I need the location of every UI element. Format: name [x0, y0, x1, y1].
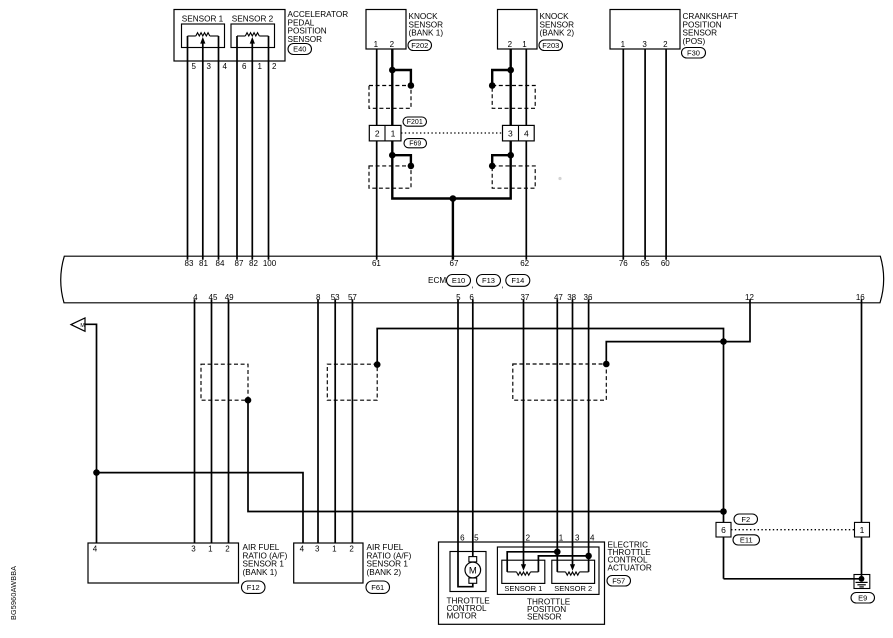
svg-text:87: 87 — [235, 259, 244, 268]
wire shield drain bank1 upper — [392, 70, 411, 86]
oval F14 — [506, 275, 530, 287]
potentiometer APP sensor2 — [237, 35, 245, 37]
wire AF bank1 shield drain — [248, 400, 724, 511]
svg-text:BG5960AWBBA: BG5960AWBBA — [9, 566, 18, 620]
svg-text:84: 84 — [216, 259, 225, 268]
wire ECM 8 to AF bank2 pin3 — [317, 299, 319, 543]
junction shield drain node — [720, 338, 727, 345]
oval F202 — [408, 40, 432, 51]
accelerator pedal position sensor outer box E40 — [174, 10, 285, 62]
oval E9 — [851, 593, 875, 604]
svg-text:F12: F12 — [247, 583, 260, 592]
wire ECM 12 shield feed — [606, 299, 750, 364]
wire APP sensor1 pin4 to ECM 84 — [218, 36, 220, 260]
wire ECM 16 to connector E11/F2 pin1 and ground E9 — [861, 299, 863, 579]
svg-text:F14: F14 — [511, 276, 524, 285]
svg-text:SENSOR: SENSOR — [527, 613, 562, 622]
wire APP sensor2 pin6 to ECM 87 — [236, 36, 238, 260]
throttle control motor box — [450, 552, 486, 592]
svg-text:F202: F202 — [411, 41, 428, 50]
shield dashed box knock bank1 lower — [369, 166, 411, 188]
APP sensor2 inner box — [231, 24, 275, 48]
ground box E9 — [854, 575, 870, 589]
junction bank1 upper shield corner — [408, 82, 415, 89]
svg-text:82: 82 — [249, 259, 258, 268]
crankshaft position sensor box F30 — [610, 10, 680, 50]
wire shield drain bank2 lower — [492, 155, 511, 166]
svg-text:(BANK 2): (BANK 2) — [540, 29, 575, 38]
svg-text:4: 4 — [93, 544, 98, 553]
wire from page arrow — [85, 324, 97, 543]
svg-text:4: 4 — [300, 544, 305, 553]
wire CKP pin2 to ECM 60 — [665, 49, 667, 260]
svg-text:37: 37 — [520, 293, 529, 302]
wire feed to AF bank2 pin4 — [97, 473, 304, 543]
svg-text:49: 49 — [225, 293, 234, 302]
wire ECM 49 to AF bank1 pin2 — [228, 299, 230, 543]
junction drain meets AF drain — [720, 508, 727, 515]
svg-text:83: 83 — [185, 259, 194, 268]
oval E10 — [447, 275, 471, 287]
wire knock sensor bank1 pin1 to ECM 61 — [376, 49, 378, 260]
oval E40 — [288, 44, 312, 55]
svg-text:E9: E9 — [858, 593, 867, 602]
svg-text:1: 1 — [522, 40, 527, 49]
oval F30 — [682, 48, 706, 59]
ground symbol bars — [856, 581, 868, 583]
oval F201 — [403, 117, 427, 126]
svg-text:16: 16 — [856, 293, 865, 302]
shield dashed box knock bank2 lower — [492, 166, 535, 188]
svg-text:2: 2 — [225, 544, 230, 553]
svg-text:45: 45 — [209, 293, 218, 302]
svg-text:F61: F61 — [371, 583, 384, 592]
wire ECM 38 to TPS sensor2 wiper — [572, 299, 574, 564]
connector F201/F69 right cells 3|4 — [503, 125, 535, 140]
junction TPS pin1 — [554, 549, 561, 556]
junction bank2 upper shield corner — [489, 82, 496, 89]
svg-text:(BANK 2): (BANK 2) — [367, 568, 402, 577]
wire TPS supply branch to sensor1 left end — [507, 552, 557, 572]
shield dashed box AF bank2 — [327, 364, 377, 400]
page reference arrow — [71, 318, 85, 331]
motor M symbol — [469, 557, 477, 562]
svg-text:81: 81 — [199, 259, 208, 268]
ECM connector strip — [61, 256, 884, 303]
wire APP sensor1 pin3 wiper to ECM 81 — [202, 43, 204, 260]
svg-text:2: 2 — [526, 533, 531, 542]
potentiometer TPS sensor1 — [507, 571, 516, 573]
svg-text:2: 2 — [349, 544, 354, 553]
svg-text:F57: F57 — [612, 576, 625, 585]
wire shield drain to connector 6 — [723, 342, 725, 579]
svg-text:3: 3 — [207, 62, 212, 71]
junction bank1 lower on wire — [389, 152, 396, 159]
oval F203 — [539, 40, 563, 51]
svg-text:4: 4 — [524, 129, 529, 139]
svg-text:100: 100 — [263, 259, 277, 268]
knock sensor bank1 box F202 — [366, 10, 406, 50]
wire APP sensor1 pin5 to ECM 83 — [187, 36, 189, 260]
junction TPS pin4 — [585, 553, 592, 560]
svg-text:47: 47 — [554, 293, 563, 302]
svg-text:F2: F2 — [741, 515, 750, 524]
dotted connector link 6-1 — [731, 529, 855, 531]
air fuel ratio sensor bank1 box F12 — [88, 543, 239, 583]
stray mark — [558, 177, 561, 180]
svg-text:SENSOR 2: SENSOR 2 — [554, 584, 592, 593]
svg-text:60: 60 — [661, 259, 670, 268]
svg-text:5: 5 — [192, 62, 197, 71]
svg-text:4: 4 — [223, 62, 228, 71]
connector E11/F2 cell 1 — [855, 522, 870, 537]
svg-text:1: 1 — [391, 129, 396, 139]
svg-text:4: 4 — [590, 533, 595, 542]
svg-text:ECM: ECM — [428, 276, 446, 285]
wire drain to ground box — [724, 578, 862, 580]
svg-text:3: 3 — [315, 544, 320, 553]
junction AF bank1 shield corner — [245, 397, 252, 404]
wire ECM 47 to TPS pin1 supply — [556, 299, 558, 572]
svg-text:F203: F203 — [542, 41, 559, 50]
svg-text:SENSOR 1: SENSOR 1 — [504, 584, 542, 593]
wire ECM 6 to throttle motor pin5 — [472, 299, 474, 557]
junction AF bank2 shield corner — [374, 361, 381, 368]
svg-text:6: 6 — [460, 533, 465, 542]
wire ECM 45 to AF bank1 pin1 — [211, 299, 213, 543]
junction bank2 lower on wire — [507, 152, 514, 159]
svg-text:61: 61 — [372, 259, 381, 268]
wire APP sensor2 pin2 to ECM 100 — [268, 36, 270, 260]
wire APP sensor2 pin1 wiper to ECM 82 — [251, 43, 253, 260]
knock sensor bank2 box F203 — [498, 10, 538, 50]
junction bank2 upper on wire — [507, 67, 514, 74]
svg-text:1: 1 — [374, 40, 379, 49]
APP sensor1 inner box — [182, 24, 225, 48]
svg-text:,: , — [502, 281, 504, 290]
svg-text:F69: F69 — [409, 141, 421, 148]
wire TPS ground branch to sensor1 right end — [538, 556, 588, 572]
svg-text:,: , — [472, 281, 474, 290]
wire knock common to ECM 67 — [452, 199, 454, 260]
svg-text:1: 1 — [559, 533, 564, 542]
svg-text:6: 6 — [721, 525, 726, 535]
oval F61 — [366, 581, 390, 593]
svg-text:E11: E11 — [740, 536, 753, 545]
svg-text:1: 1 — [860, 525, 865, 535]
svg-text:(POS): (POS) — [683, 37, 706, 46]
shield dashed box AF bank1 — [201, 364, 248, 400]
svg-text:ACTUATOR: ACTUATOR — [608, 563, 652, 572]
shield dashed box knock bank1 upper — [369, 86, 411, 109]
svg-text:F201: F201 — [407, 119, 423, 126]
wire CKP pin3 to ECM 65 — [644, 49, 646, 260]
svg-text:6: 6 — [242, 62, 247, 71]
junction AF feed split — [93, 469, 100, 476]
junction TPS shield corner — [603, 361, 610, 368]
electric throttle control actuator outer box F57 — [439, 542, 605, 624]
wire ECM 4 to AF bank1 pin3 — [194, 299, 196, 543]
svg-text:3: 3 — [508, 129, 513, 139]
svg-text:3: 3 — [191, 544, 196, 553]
wire shielded knock sensor pin2 loop bank1+bank2 — [392, 49, 510, 199]
junction bank1 lower shield corner — [408, 163, 415, 170]
connector F201/F69 left cells 2|1 — [369, 125, 401, 140]
svg-text:F13: F13 — [482, 276, 495, 285]
svg-text:1: 1 — [258, 62, 263, 71]
connector E11/F2 cell 6 — [716, 522, 731, 537]
TPS sensor2 box — [552, 560, 595, 583]
svg-text:1: 1 — [208, 544, 213, 553]
junction knock common node — [450, 195, 457, 202]
oval F13 — [477, 275, 501, 287]
svg-text:SENSOR 1: SENSOR 1 — [182, 14, 224, 23]
wire ECM 37 to TPS sensor1 wiper — [523, 299, 525, 564]
svg-text:65: 65 — [641, 259, 650, 268]
wire CKP pin1 to ECM 76 — [622, 49, 624, 260]
throttle position sensor outer box — [497, 547, 599, 594]
svg-text:3: 3 — [642, 40, 647, 49]
wire ECM 5 to throttle motor pin6 — [458, 299, 473, 586]
svg-text:76: 76 — [619, 259, 628, 268]
svg-text:3: 3 — [575, 533, 580, 542]
svg-text:F30: F30 — [687, 48, 700, 57]
TPS sensor1 box — [502, 560, 545, 583]
svg-text:62: 62 — [520, 259, 529, 268]
shield dashed box TPS — [513, 364, 607, 400]
svg-text:2: 2 — [508, 40, 513, 49]
svg-text:SENSOR 2: SENSOR 2 — [232, 14, 274, 23]
potentiometer TPS sensor2 — [557, 571, 565, 573]
svg-text:2: 2 — [375, 129, 380, 139]
ground symbol junction dot — [859, 576, 865, 582]
svg-text:1: 1 — [621, 40, 626, 49]
wire ECM 53 to AF bank2 pin1 — [334, 299, 336, 543]
oval F57 — [607, 576, 631, 587]
wire shield drain bank1 lower — [392, 155, 411, 166]
wire ECM 36 to TPS pin4 ground — [588, 299, 590, 572]
oval F2 — [734, 514, 758, 524]
svg-text:E10: E10 — [452, 276, 465, 285]
svg-text:2: 2 — [272, 62, 277, 71]
svg-text:2: 2 — [663, 40, 668, 49]
air fuel ratio sensor bank2 box F61 — [294, 543, 363, 583]
dotted connector link F201-F69 — [401, 132, 503, 134]
svg-text:1: 1 — [332, 544, 337, 553]
wire shield drain bank2 upper — [492, 70, 511, 86]
potentiometer APP sensor1 — [188, 35, 196, 37]
svg-text:SENSOR: SENSOR — [288, 35, 323, 44]
svg-text:MOTOR: MOTOR — [447, 612, 477, 621]
svg-text:E40: E40 — [293, 45, 306, 54]
shield dashed box knock bank2 upper — [492, 86, 535, 109]
oval F69 — [404, 139, 427, 148]
wire AF bank2 shield drain — [377, 329, 723, 365]
svg-text:67: 67 — [450, 259, 459, 268]
svg-text:5: 5 — [474, 533, 479, 542]
wire knock sensor bank2 pin1 to ECM 62 — [525, 49, 527, 260]
wire ECM 57 to AF bank2 pin2 — [351, 299, 353, 543]
svg-text:2: 2 — [390, 40, 395, 49]
svg-text:M: M — [80, 323, 84, 329]
junction bank2 lower shield corner — [489, 163, 496, 170]
svg-text:(BANK 1): (BANK 1) — [409, 29, 444, 38]
junction bank1 upper on wire — [389, 67, 396, 74]
svg-text:M: M — [469, 565, 477, 576]
svg-text:(BANK 1): (BANK 1) — [243, 568, 278, 577]
oval E11 — [733, 535, 760, 545]
oval F12 — [242, 581, 266, 593]
